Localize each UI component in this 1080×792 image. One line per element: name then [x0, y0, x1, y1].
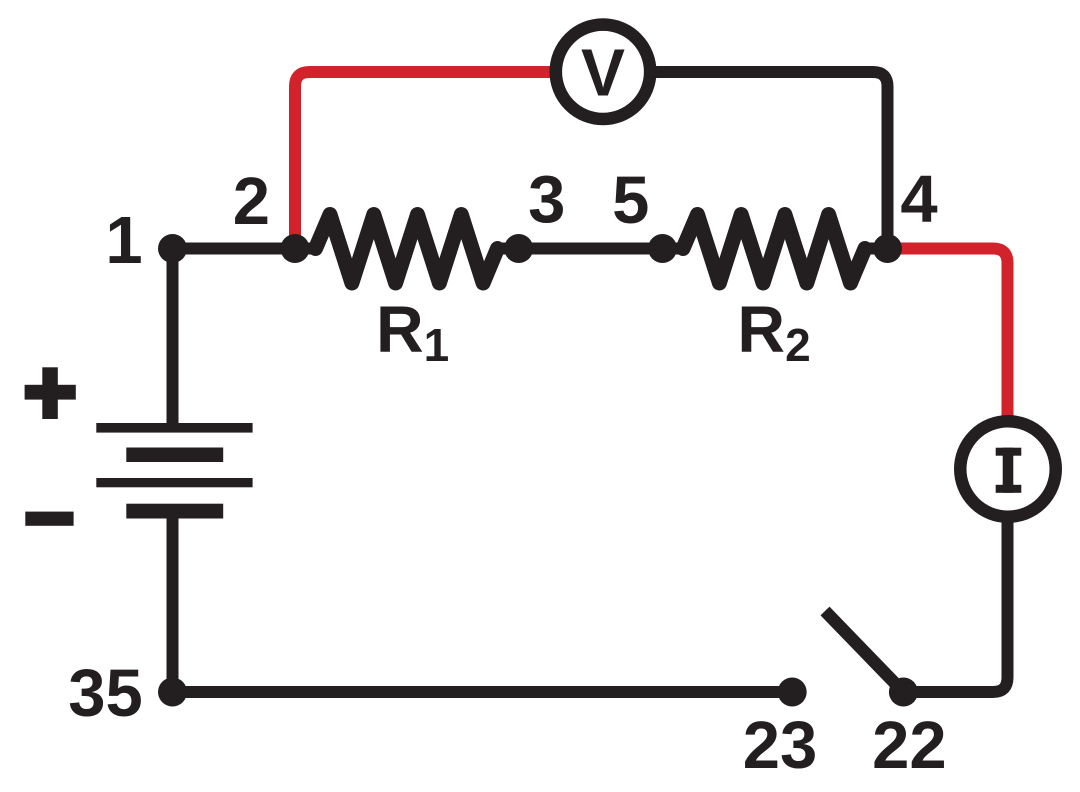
battery + sign [25, 367, 76, 419]
resistor R1 lead wires [295, 243, 519, 255]
wire: node 22 right and up to ammeter [903, 469, 1007, 692]
battery - sign [25, 512, 73, 526]
wire: voltmeter right and down to node 4 [603, 72, 888, 250]
svg-text:23: 23 [743, 708, 818, 783]
node 4 [873, 234, 902, 263]
wire red: node 2 up to voltmeter [295, 72, 603, 252]
resistor R2 zigzag [683, 215, 865, 284]
svg-text:4: 4 [900, 162, 937, 237]
battery B1 plate 2 (short) [126, 448, 223, 463]
node 23 [778, 678, 807, 707]
svg-text:5: 5 [612, 163, 649, 238]
node 3 [504, 234, 533, 263]
wire: node 1 down to battery top [167, 249, 179, 429]
node 2 [281, 234, 310, 263]
switch lever (node 22 to open tip) [825, 611, 903, 692]
svg-text:22: 22 [872, 708, 947, 783]
ammeter I [960, 421, 1056, 517]
battery B1 plate 4 (short, -) [126, 504, 223, 519]
svg-text:3: 3 [528, 163, 565, 238]
svg-text:1: 1 [105, 203, 142, 278]
svg-text:35: 35 [68, 656, 143, 731]
node 22 [889, 678, 918, 707]
wire: node 3 to node 5 [519, 243, 663, 255]
voltmeter V [556, 25, 650, 119]
battery B1 plate 1 (long, +) [96, 423, 252, 433]
wire red: node 4 right and down to ammeter [888, 249, 1008, 470]
node 1 [158, 234, 187, 263]
node 5 [648, 234, 677, 263]
node 35 [158, 678, 187, 707]
wire: battery bottom down to node 35 [167, 512, 179, 692]
wire: bottom rail node 35 to node 23 [173, 686, 793, 698]
resistor R2 lead wires [663, 243, 888, 255]
resistor R1 zigzag [316, 215, 498, 284]
wire: main rail node 1 to node 2 [173, 243, 296, 255]
battery B1 plate 3 (long) [96, 478, 252, 487]
svg-text:V: V [581, 35, 625, 110]
svg-text:2: 2 [233, 164, 270, 239]
